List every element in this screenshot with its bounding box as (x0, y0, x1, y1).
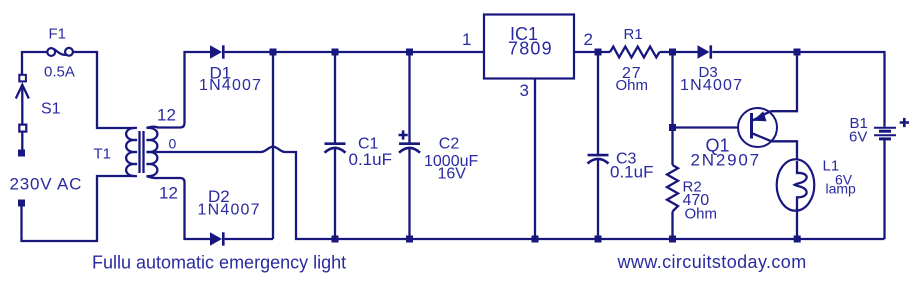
secondary winding (147, 128, 158, 176)
node: C1 top (332, 49, 339, 56)
wire: junction down to transistor base (671, 52, 673, 128)
svg-text:lamp: lamp (826, 180, 857, 196)
wire: IC1 pin 3 to ground rail (534, 79, 536, 240)
node: C1 bottom (332, 236, 339, 243)
svg-text:3: 3 (520, 81, 529, 100)
svg-text:12: 12 (157, 106, 176, 125)
svg-text:16V: 16V (438, 166, 467, 183)
node: R1/D3/base junction (669, 49, 676, 56)
svg-text:1N4007: 1N4007 (680, 77, 743, 94)
svg-text:0: 0 (169, 135, 177, 151)
svg-text:R1: R1 (624, 26, 643, 43)
svg-text:0.5A: 0.5A (44, 63, 75, 80)
wire: R1 to D3 (660, 51, 698, 53)
wire: fuse to transformer primary top (73, 52, 135, 128)
svg-text:Ohm: Ohm (616, 77, 649, 94)
node: C3 bottom (595, 236, 602, 243)
svg-text:1N4007: 1N4007 (199, 77, 262, 94)
wire: D1 cathode to IC1 input (top rail) (225, 51, 484, 53)
wire: switch to AC terminal (21, 132, 23, 150)
wire: IC1 output pin 2 to R1 (574, 51, 610, 53)
resistor R1 27 Ohm (610, 26, 660, 94)
node: base/R2 junction (669, 124, 676, 131)
wire: Q1 collector to lamp (772, 141, 798, 173)
wire: D3 cathode to battery branch (top rail right) (712, 52, 884, 127)
diode D3 1N4007 (680, 45, 743, 94)
wire: secondary bottom lead to D2 (147, 176, 211, 239)
node: regulator output junction (595, 49, 602, 56)
wire: D2 cathode to rectifier output riser (225, 238, 273, 240)
svg-text:1N4007: 1N4007 (198, 202, 261, 219)
lamp L1 6V (777, 157, 856, 210)
wire: center tap ground with hop, down and along bottom rail (147, 147, 885, 239)
svg-text:C2: C2 (439, 136, 460, 153)
svg-text:0.1uF: 0.1uF (349, 150, 392, 169)
svg-text:Ohm: Ohm (685, 206, 718, 223)
AC terminal top (18, 150, 25, 157)
svg-text:0.1uF: 0.1uF (610, 163, 653, 182)
IC1 7809 voltage regulator (484, 15, 574, 79)
node: lamp ground junction (794, 236, 801, 243)
core (138, 131, 140, 173)
node: rectifier output junction (270, 49, 277, 56)
capacitor C2 1000uF 16V (399, 52, 479, 239)
wire: base junction down to R2 (671, 131, 673, 165)
wire: secondary top lead to D1 (147, 52, 211, 128)
wire: AC live top lead from left vertical to fuse (22, 51, 47, 52)
svg-text:12: 12 (159, 184, 178, 203)
wire: rectifier output riser (D2 to top rail) (272, 52, 274, 239)
capacitor C3 0.1uF (588, 52, 654, 239)
svg-text:7809: 7809 (508, 39, 553, 59)
svg-text:F1: F1 (49, 26, 67, 43)
switch S1 (16, 52, 61, 132)
svg-text:2N2907: 2N2907 (691, 151, 761, 170)
transistor Q1 2N2907 (691, 108, 778, 170)
svg-text:2: 2 (584, 30, 593, 49)
svg-text:6V: 6V (849, 129, 867, 146)
svg-text:1: 1 (462, 30, 471, 49)
node: R2 ground junction (669, 236, 676, 243)
capacitor C1 0.1uF (325, 52, 392, 239)
svg-text:230V AC: 230V AC (10, 174, 83, 193)
wire: Q1 emitter up to rail (771, 52, 798, 111)
svg-text:Fullu automatic emergency ligh: Fullu automatic emergency light (92, 253, 346, 273)
resistor R2 470 Ohm (667, 165, 717, 223)
svg-text:www.circuitstoday.com: www.circuitstoday.com (617, 252, 807, 272)
wire: R2 to ground rail (671, 212, 673, 240)
diode D2 1N4007 (198, 187, 261, 246)
wire: battery negative to ground rail (883, 140, 885, 239)
diode D1 1N4007 (199, 45, 262, 94)
node: emitter rail junction (794, 49, 801, 56)
wire: AC bottom terminal to transformer primary bottom (22, 176, 136, 241)
transformer T1 (94, 106, 178, 203)
wire: lamp to ground rail (796, 208, 798, 239)
fuse F1 (44, 26, 75, 81)
svg-text:S1: S1 (41, 100, 61, 117)
node: C2 top (406, 49, 413, 56)
node: C2 bottom (406, 236, 413, 243)
node: pin3 ground junction (532, 236, 539, 243)
AC terminal bottom (18, 200, 25, 207)
svg-text:T1: T1 (94, 146, 112, 163)
wire: base junction to Q1 base (673, 126, 751, 128)
battery B1 6V (849, 115, 909, 146)
primary winding (126, 128, 137, 176)
